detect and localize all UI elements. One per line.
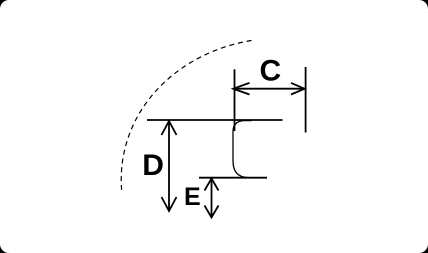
- extension line left of C: [234, 69, 236, 131]
- top horizontal line (upper surface): [147, 119, 283, 121]
- dimension arrow D (vertical, double-headed): [162, 121, 177, 211]
- dimension arrow E (vertical, double-headed): [205, 179, 219, 218]
- dashed arc (fabric edge, dashed): [121, 41, 251, 191]
- lower horizontal line (lower surface): [199, 177, 267, 179]
- curved edge profile: [233, 121, 254, 178]
- svg-text:E: E: [184, 183, 201, 211]
- extension line right of C: [305, 67, 307, 133]
- dimension arrow C (horizontal, double-headed): [233, 83, 304, 95]
- svg-text:D: D: [142, 149, 164, 182]
- svg-text:C: C: [260, 55, 282, 88]
